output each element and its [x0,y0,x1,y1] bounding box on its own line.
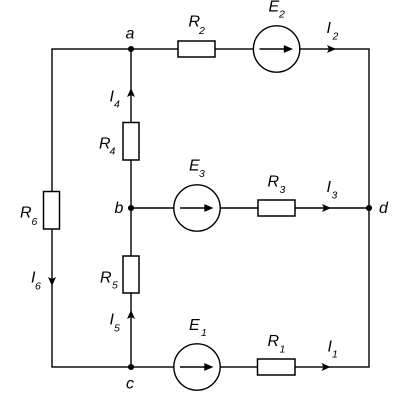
svg-text:R: R [20,205,32,222]
svg-text:5: 5 [114,323,120,335]
svg-text:3: 3 [332,190,338,202]
svg-text:3: 3 [199,168,205,180]
svg-text:R: R [268,174,280,191]
svg-text:c: c [126,376,134,393]
svg-text:6: 6 [32,216,38,228]
svg-text:I: I [327,20,332,37]
svg-text:2: 2 [332,31,339,43]
svg-text:5: 5 [112,280,118,292]
svg-text:4: 4 [114,99,120,111]
svg-text:2: 2 [198,25,205,37]
svg-text:1: 1 [332,349,338,361]
svg-text:1: 1 [201,327,207,339]
svg-text:a: a [126,26,135,43]
svg-text:6: 6 [35,281,41,293]
svg-text:1: 1 [280,344,286,356]
svg-text:R: R [268,333,280,350]
svg-text:R: R [100,270,112,287]
svg-text:d: d [379,200,389,217]
svg-text:4: 4 [110,146,116,158]
svg-text:b: b [115,200,124,217]
svg-text:E: E [189,317,200,334]
svg-text:2: 2 [278,9,285,21]
svg-text:E: E [269,0,280,16]
svg-text:3: 3 [280,184,286,196]
